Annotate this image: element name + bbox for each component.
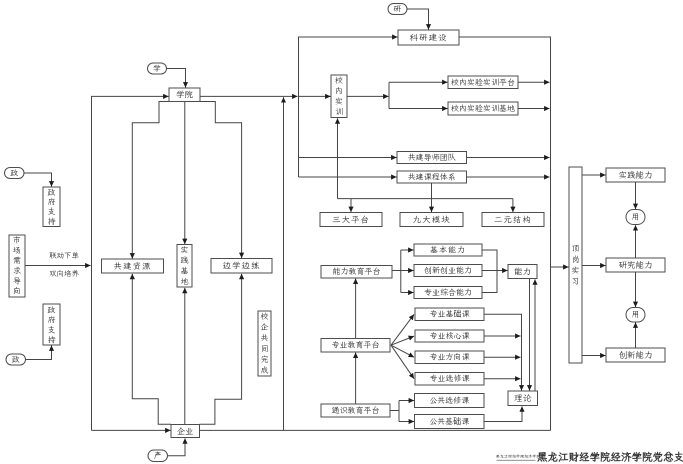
wire 专业核心课 to 理论 bus: [484, 335, 521, 337]
wire 科研建设 to right trunk: [459, 37, 551, 430]
wire 能力教育平台 fork: [392, 270, 401, 272]
wire 顶岗实习 to 实践能力: [582, 174, 606, 176]
wire 企业 to 边学边练 (staircase): [200, 274, 242, 424]
wire mid trunk to 科研建设: [299, 37, 398, 177]
wire fork to 二元结构: [512, 199, 514, 212]
svg-text:研究能力: 研究能力: [618, 260, 652, 271]
svg-text:共建资源: 共建资源: [113, 261, 151, 272]
svg-text:共建导师团队: 共建导师团队: [408, 153, 457, 163]
svg-text:基本能力: 基本能力: [430, 246, 466, 256]
svg-text:校内实验实训基地: 校内实验实训基地: [450, 104, 515, 114]
wire 通识教育平台 fork: [390, 410, 399, 412]
wire 产 to 企业: [168, 438, 186, 455]
svg-text:政: 政: [10, 168, 18, 178]
wire mid trunk to 共建导师团队: [299, 157, 397, 159]
node 政 top (stadium): [5, 168, 25, 179]
box 理论: [508, 391, 538, 406]
node 学 (stadium): [148, 63, 167, 74]
box 校内实验实训平台: [448, 76, 518, 89]
box 公共基础课: [415, 415, 485, 429]
wire 创新能力 to 用 lower: [635, 323, 637, 349]
wire fan 专业教育平台 to 专业基础课: [391, 314, 414, 345]
wire 专业方向课 to 理论 bus: [484, 356, 521, 358]
wire 研究能力 to 用 upper: [635, 225, 637, 258]
svg-text:校内实验实训平台: 校内实验实训平台: [450, 78, 515, 88]
svg-text:黑龙江财经学院经济学院党总支: 黑龙江财经学院经济学院党总支: [537, 450, 683, 464]
svg-text:通识教育平台: 通识教育平台: [331, 406, 380, 416]
svg-text:校内实训: 校内实训: [334, 76, 343, 118]
wire 顶岗实习 to 研究能力: [582, 265, 606, 267]
wire 课程体系 fork bus: [431, 183, 433, 199]
svg-text:政府支持: 政府支持: [48, 306, 57, 346]
svg-text:政府支持: 政府支持: [48, 188, 57, 227]
box 学院: [169, 88, 200, 102]
box 专业选修课: [415, 373, 484, 386]
box 企业: [171, 425, 200, 438]
box 能力教育平台: [321, 266, 392, 279]
box 校内实训 (vertical): [331, 75, 347, 118]
svg-text:企业: 企业: [177, 426, 195, 437]
box 专业核心课: [415, 330, 484, 342]
box 科研建设: [398, 30, 459, 45]
wire 企业 bus up to 学院 line: [283, 97, 285, 430]
box 共建导师团队: [397, 152, 467, 164]
wire mid trunk to 校内实训: [299, 95, 331, 97]
svg-text:实践基地: 实践基地: [181, 245, 189, 287]
box 政府支持 bottom (vertical): [43, 304, 60, 346]
wire 导师团队 to right trunk: [467, 157, 550, 159]
svg-text:理论: 理论: [514, 393, 532, 404]
wire fan 专业教育平台 to 专业选修课: [391, 345, 414, 379]
box 专业基础课: [415, 308, 484, 321]
wire 顶岗实习 to 创新能力: [582, 355, 606, 357]
wire 专业基础课 to 理论: [484, 314, 522, 390]
wire mid trunk to 共建课程体系: [299, 176, 397, 178]
wire 研究能力 to 用 lower: [635, 272, 637, 307]
node 用 upper (stadium): [626, 210, 645, 225]
wire fork to 三大平台: [350, 199, 352, 212]
wire chain 通识教育平台 to 专业教育平台: [355, 353, 357, 404]
wire 实践能力 to 用: [635, 182, 637, 209]
wire 学院 to 边学边练 (staircase): [200, 102, 242, 259]
wire merge 基本/综合: [482, 250, 497, 293]
svg-text:实践能力: 实践能力: [618, 170, 652, 181]
box 顶岗实习 (vertical): [569, 167, 582, 363]
svg-text:产: 产: [154, 451, 162, 461]
svg-text:创新创业能力: 创新创业能力: [424, 266, 472, 276]
wire 研 to 科研建设: [407, 9, 429, 30]
wire 公共基础课 to 理论: [484, 406, 522, 421]
svg-text:专业选修课: 专业选修课: [430, 374, 470, 384]
svg-text:专业核心课: 专业核心课: [430, 332, 470, 342]
box 创新能力: [606, 348, 665, 362]
box 能力: [508, 265, 537, 279]
svg-text:用: 用: [632, 310, 640, 320]
wire 政 to 政府支持 bottom: [26, 346, 52, 360]
wire 平台 to right trunk: [518, 81, 550, 83]
wire left trunk to 学院: [92, 96, 169, 430]
node 产 (stadium): [148, 450, 168, 462]
box 三大平台: [320, 213, 382, 227]
svg-text:专业方向课: 专业方向课: [430, 353, 470, 363]
box 政府支持 top (vertical): [43, 187, 60, 227]
wire 学院 to 实践基地: [184, 102, 186, 245]
box 研究能力: [606, 258, 665, 272]
svg-text:二元结构: 二元结构: [494, 215, 532, 226]
wire 基地 to right trunk: [518, 108, 550, 110]
wire fan 专业教育平台 to 专业核心课: [391, 336, 414, 345]
box 公共选修课: [415, 394, 485, 408]
wire fork up to 校内实训: [337, 118, 339, 198]
box 实践基地 (vertical): [177, 245, 192, 288]
wire 校内实训 to fork: [347, 95, 389, 97]
wire fan 专业教育平台 to 专业方向课: [391, 345, 414, 357]
box 专业方向课: [415, 351, 484, 364]
box 市场需求导向 (vertical): [9, 235, 25, 297]
svg-text:能力教育平台: 能力教育平台: [333, 267, 381, 277]
svg-text:研: 研: [394, 4, 402, 14]
box 共建课程体系: [397, 171, 467, 183]
box 九大模块: [400, 213, 463, 227]
svg-text:专业综合能力: 专业综合能力: [424, 288, 472, 298]
wire left trunk to 企业: [92, 429, 171, 431]
node 研 (stadium): [388, 4, 407, 15]
svg-text:能力: 能力: [514, 267, 531, 278]
svg-text:九大模块: 九大模块: [412, 215, 450, 226]
svg-text:政: 政: [12, 355, 20, 365]
box 基本能力: [414, 244, 482, 256]
wire 学院 to mid trunk: [200, 95, 298, 97]
node 用 lower (stadium): [626, 308, 645, 323]
box 校企共同完成 (vertical label): [258, 311, 271, 376]
svg-text:科研建设: 科研建设: [409, 33, 447, 44]
svg-text:三大平台: 三大平台: [332, 215, 370, 226]
svg-text:创新能力: 创新能力: [618, 350, 652, 361]
svg-text:公共基础课: 公共基础课: [429, 416, 469, 427]
wire bottom bus 企业 to right trunk: [200, 429, 551, 431]
svg-text:公共选修课: 公共选修课: [429, 396, 469, 406]
box 边学边练: [211, 259, 272, 274]
wire 创新创业能力 to 能力: [482, 270, 508, 272]
node 政 bottom (stadium): [6, 354, 26, 365]
wire 专业选修课 to 理论 bus: [484, 378, 521, 380]
svg-text:联动下单: 联动下单: [49, 251, 79, 261]
box 专业教育平台: [321, 339, 390, 353]
box 专业综合能力: [414, 287, 482, 299]
svg-text:学院: 学院: [176, 90, 194, 101]
wire fork to 九大模块: [431, 199, 433, 212]
box 实践能力: [606, 168, 665, 182]
wire chain 专业教育平台 to 能力教育平台: [355, 279, 357, 339]
box 共建资源: [102, 259, 164, 273]
wire 课程体系 to right trunk: [467, 176, 550, 178]
svg-text:市场需求导向: 市场需求导向: [13, 236, 21, 297]
svg-text:共建课程体系: 共建课程体系: [408, 173, 456, 183]
svg-text:黑龙江财经学院经济学院: 黑龙江财经学院经济学院: [496, 454, 540, 460]
svg-text:学: 学: [153, 64, 161, 74]
svg-text:校企共同完成: 校企共同完成: [260, 312, 269, 376]
wire fork to 实验实训平台/基地: [388, 82, 390, 108]
svg-text:顶岗实习: 顶岗实习: [572, 244, 580, 287]
svg-text:专业基础课: 专业基础课: [430, 309, 470, 320]
wire 能力 to 理论: [529, 279, 531, 391]
wire 政 to 政府支持 top: [24, 173, 52, 187]
box 校内实验实训基地: [448, 102, 518, 115]
svg-text:边学边练: 边学边练: [222, 261, 260, 272]
svg-text:用: 用: [632, 213, 640, 223]
wire 学 to 学院: [167, 69, 186, 88]
wire right trunk to 顶岗实习: [551, 266, 569, 268]
wire 学院 to 共建资源 (staircase): [132, 102, 169, 259]
svg-text:双向培养: 双向培养: [49, 269, 79, 279]
box 二元结构: [482, 213, 544, 227]
box 通识教育平台: [321, 404, 390, 417]
wire 市场需求导向 to trunk: [25, 265, 91, 267]
wire 企业 to 实践基地: [184, 288, 186, 425]
wire 理论 to 能力: [534, 279, 536, 391]
wire 企业 to 共建资源 (staircase): [132, 274, 171, 424]
svg-text:专业教育平台: 专业教育平台: [332, 341, 380, 351]
box 创新创业能力: [414, 265, 482, 277]
